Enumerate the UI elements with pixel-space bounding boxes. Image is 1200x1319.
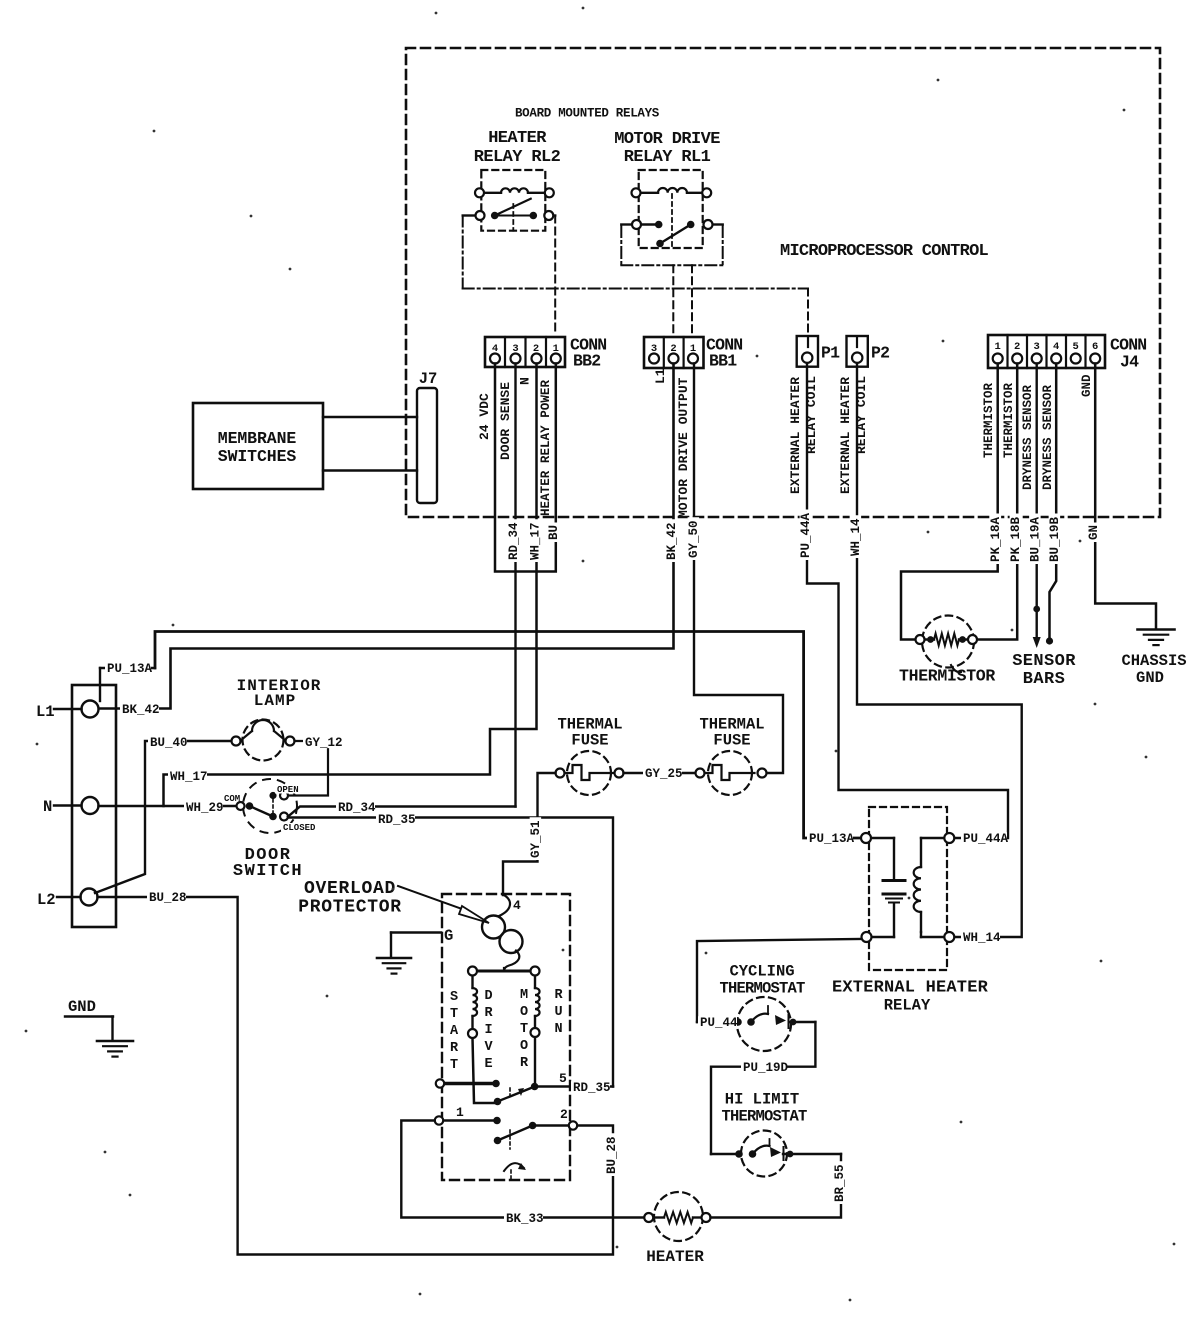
connector P2: [847, 336, 868, 367]
run winding lower wire: [534, 1037, 536, 1087]
svg-text:MOTOR DRIVE: MOTOR DRIVE: [614, 130, 720, 149]
external heater relay terminals: [861, 833, 871, 843]
power terminal block: [72, 685, 116, 927]
thermal fuse 2 dashed circle: [624, 751, 755, 795]
door switch link dashes: [272, 799, 274, 813]
wire PU_19D cycling to hi-limit: [711, 1022, 815, 1154]
svg-text:N: N: [554, 1022, 562, 1037]
dashed wire RL2 contact to CONN BB2 pin 1: [554, 216, 556, 335]
thermistor resistor element: [934, 634, 959, 646]
svg-text:MOTOR DRIVE OUTPUT: MOTOR DRIVE OUTPUT: [676, 377, 691, 518]
svg-text:5: 5: [1073, 341, 1079, 353]
svg-text:RD_35: RD_35: [573, 1081, 611, 1095]
svg-text:BU_19A: BU_19A: [1029, 516, 1043, 562]
svg-text:GND: GND: [1136, 669, 1164, 687]
wire PK_18A J4 pin1 to thermistor: [901, 364, 998, 640]
svg-text:DOOR SENSE: DOOR SENSE: [498, 382, 513, 460]
terminal N: [82, 797, 99, 814]
wire label BK_42 at L1: [120, 703, 159, 715]
svg-text:HI LIMIT: HI LIMIT: [725, 1091, 799, 1109]
svg-text:OPEN: OPEN: [277, 785, 299, 795]
svg-text:R: R: [520, 1056, 529, 1071]
sensor bar contact pin3: [1033, 606, 1040, 613]
svg-text:THERMOSTAT: THERMOSTAT: [719, 980, 805, 998]
svg-text:O: O: [520, 1039, 528, 1054]
wire pin5 to RD_35: [535, 1085, 613, 1088]
thermal fuse 2 element: [705, 765, 755, 780]
wire PU_13A from L1 to external heater relay: [99, 668, 101, 701]
motor winding bus: [473, 968, 540, 1103]
motor ground symbol: [377, 957, 411, 960]
wire label BK_42 at BB1: [666, 519, 678, 562]
wire label RD_34: [508, 519, 520, 562]
svg-text:1: 1: [995, 341, 1001, 353]
wire label PU_44A at relay: [961, 832, 1007, 844]
relay RL1 dash-dot enclosure: [620, 226, 622, 265]
overload protector squiggle top: [499, 895, 510, 917]
svg-text:GND: GND: [1080, 374, 1094, 397]
svg-text:G: G: [444, 927, 453, 945]
wire label BU_19B: [1049, 514, 1061, 565]
svg-text:E: E: [484, 1057, 492, 1072]
svg-text:J4: J4: [1120, 353, 1139, 372]
wire label PK_18A: [990, 514, 1002, 565]
relay RL1 switch blade: [660, 225, 691, 244]
membrane switches box: [193, 403, 323, 489]
svg-text:LAMP: LAMP: [254, 692, 296, 710]
wire GY_51 thermal fuse to motor pin 4: [503, 773, 556, 895]
motor switch pin 2 contact: [533, 1124, 569, 1127]
svg-text:EXTERNAL HEATER: EXTERNAL HEATER: [838, 377, 853, 494]
wire label GY_51: [530, 817, 542, 860]
dash-dot boundary from RL2 left: [462, 216, 464, 289]
cycling thermostat line PU_44: [697, 1021, 738, 1023]
svg-text:WH_14: WH_14: [963, 931, 1001, 945]
wire label WH_14 at P2: [850, 515, 862, 558]
svg-text:BB1: BB1: [709, 352, 737, 371]
svg-text:BB2: BB2: [573, 352, 600, 371]
external heater relay contact plates: [883, 879, 905, 882]
svg-text:N: N: [518, 377, 533, 385]
relay RL1 coil: [641, 192, 659, 194]
run winding: [534, 976, 536, 988]
relay RL2 contact terminals: [476, 211, 485, 220]
wire RD_34 from BB2 pin 3 to door switch: [514, 364, 516, 807]
svg-text:J7: J7: [419, 370, 438, 388]
wire membrane switches to J7 upper: [164, 364, 556, 807]
svg-text:FUSE: FUSE: [713, 732, 750, 750]
svg-text:BR_55: BR_55: [833, 1164, 847, 1202]
wire membrane switches to J7 lower: [323, 469, 417, 471]
relay RL1 armature dashed link: [671, 194, 673, 248]
svg-text:6: 6: [1092, 341, 1098, 353]
svg-text:MEMBRANE: MEMBRANE: [218, 429, 297, 448]
relay RL2 coil terminals: [475, 188, 484, 197]
wire heater to hi-limit thermostat BR_55: [711, 1154, 842, 1218]
svg-text:CYCLING: CYCLING: [729, 963, 794, 981]
cycling thermostat dashed circle: [737, 997, 791, 1051]
door switch closed contact: [269, 813, 277, 821]
svg-text:P1: P1: [821, 344, 840, 363]
wire WH_17 from BB2 pin 2: [164, 364, 537, 807]
sensor bar contact pin4: [1046, 637, 1053, 644]
motor winding bus terminals: [468, 967, 477, 976]
drive motor dashed box: [442, 894, 570, 1180]
svg-text:WH_29: WH_29: [186, 801, 224, 815]
svg-text:I: I: [484, 1023, 492, 1038]
svg-text:RD_34: RD_34: [507, 522, 521, 560]
connector J7: [417, 388, 437, 503]
svg-text:BK_42: BK_42: [665, 522, 679, 560]
svg-text:EXTERNAL HEATER: EXTERNAL HEATER: [788, 377, 803, 494]
wire stub L1: [54, 708, 82, 710]
svg-text:RELAY RL2: RELAY RL2: [474, 148, 561, 167]
door switch blade: [250, 806, 274, 817]
svg-text:4: 4: [513, 898, 521, 913]
thermistor dashed circle: [920, 616, 974, 673]
svg-text:O: O: [520, 1005, 528, 1020]
svg-text:RELAY: RELAY: [884, 997, 931, 1015]
ground GND symbol: [97, 1040, 133, 1043]
label OPEN: [275, 785, 303, 794]
svg-text:FUSE: FUSE: [571, 732, 608, 750]
centrifugal switch link: [509, 1088, 511, 1096]
wire RD_35 door switch to motor switch: [288, 818, 613, 1087]
thermal fuse 1 element: [565, 765, 615, 780]
svg-text:L1: L1: [36, 703, 55, 721]
svg-text:PU_44A: PU_44A: [799, 512, 813, 558]
svg-text:RELAY RL1: RELAY RL1: [624, 148, 711, 167]
heater dashed circle: [653, 1192, 703, 1241]
interior lamp dashed circle: [243, 720, 284, 761]
relay RL2 switch blade: [495, 199, 531, 216]
svg-text:THERMISTOR: THERMISTOR: [1002, 382, 1016, 458]
terminal L2: [81, 889, 98, 906]
door switch open contact: [269, 792, 276, 799]
external heater relay dashed box: [869, 807, 947, 970]
svg-text:3: 3: [1034, 341, 1040, 353]
wire label BU: [548, 523, 560, 543]
wire label PU_13A at L1: [105, 662, 151, 674]
terminal L1: [82, 701, 99, 718]
wire label PU_19D: [741, 1061, 787, 1073]
chassis ground symbol: [1138, 628, 1175, 631]
svg-text:GND: GND: [68, 998, 96, 1016]
svg-text:L2: L2: [37, 891, 56, 909]
relay RL2 contact wire: [463, 214, 556, 216]
wire BU_19A J4 pin3 to sensor bar: [1035, 364, 1037, 642]
start winding lower wire: [473, 1038, 498, 1103]
svg-text:COM: COM: [224, 794, 240, 804]
svg-text:DRYNESS SENSOR: DRYNESS SENSOR: [1021, 384, 1035, 490]
motor switch pin 5 fixed contact: [445, 1082, 496, 1086]
thermistor pigtail: [951, 665, 961, 672]
svg-text:BU: BU: [547, 525, 561, 540]
relay RL1 contact wire: [621, 223, 722, 225]
CONN BB2 pin terminals: [490, 354, 500, 364]
hi limit thermostat blade: [753, 1146, 770, 1154]
wire BK_33 from motor pin 1 to heater: [401, 1121, 644, 1218]
connector CONN BB2: [485, 337, 565, 367]
svg-text:2: 2: [560, 1107, 568, 1122]
svg-text:BU_19B: BU_19B: [1048, 516, 1062, 562]
svg-text:GY_25: GY_25: [645, 767, 683, 781]
svg-text:SWITCH: SWITCH: [233, 862, 303, 881]
wire label WH_14 at relay: [961, 931, 1000, 943]
connector P1: [797, 336, 818, 367]
connector CONN J4: [988, 335, 1105, 368]
svg-text:SWITCHES: SWITCHES: [218, 447, 297, 466]
overload protector squiggle bottom: [504, 951, 519, 972]
svg-text:S: S: [450, 990, 458, 1005]
heater relay RL2 dashed box: [481, 170, 545, 231]
wire label PU_13A at relay: [807, 832, 853, 844]
hi limit thermostat dashed circle: [711, 1131, 841, 1177]
svg-text:N: N: [43, 798, 52, 816]
wire PU_44A from P1 to external heater relay: [807, 364, 1008, 839]
relay RL1 coil terminals: [632, 188, 641, 197]
wire label BK_33: [504, 1212, 543, 1224]
svg-text:WH_14: WH_14: [849, 518, 863, 556]
svg-text:THERMOSTAT: THERMOSTAT: [721, 1108, 807, 1126]
thermal fuse 1 terminals: [556, 769, 565, 778]
svg-text:GY_51: GY_51: [529, 820, 543, 858]
wire label PU_44: [698, 1016, 737, 1028]
svg-text:OVERLOAD: OVERLOAD: [304, 879, 396, 899]
svg-text:HEATER: HEATER: [488, 129, 547, 148]
wire label GY_12: [303, 736, 342, 748]
svg-text:HEATER: HEATER: [646, 1248, 704, 1266]
wire cycling thermostat to external heater relay: [697, 939, 861, 1051]
svg-text:BARS: BARS: [1023, 670, 1065, 689]
connector CONN BB1: [644, 337, 704, 368]
svg-text:PROTECTOR: PROTECTOR: [298, 898, 402, 918]
wire label BU_19A: [1029, 514, 1041, 565]
overload protector thermal discs: [482, 916, 505, 939]
motor drive relay RL1 dashed box: [639, 170, 703, 248]
svg-text:D: D: [484, 989, 492, 1004]
thermistor terminals: [916, 635, 925, 644]
svg-text:GN: GN: [1087, 525, 1101, 540]
svg-text:RD_35: RD_35: [378, 813, 416, 827]
svg-text:THERMISTOR: THERMISTOR: [982, 382, 996, 458]
svg-text:BK_42: BK_42: [122, 703, 160, 717]
heater terminals: [644, 1213, 653, 1222]
svg-text:SENSOR: SENSOR: [1012, 652, 1076, 671]
svg-text:BU_28: BU_28: [605, 1136, 619, 1174]
start winding: [471, 976, 473, 988]
interior lamp filament: [240, 720, 286, 741]
wire label RD_34: [336, 801, 375, 813]
dashed wire RL1 to CONN BB1 pin 2: [672, 265, 674, 334]
svg-text:R: R: [484, 1006, 493, 1021]
svg-text:1: 1: [456, 1105, 464, 1120]
CONN J4 pin terminals: [993, 354, 1003, 364]
heater element: [664, 1212, 693, 1223]
wire label GN: [1088, 523, 1100, 543]
wire label PK_18B: [1010, 514, 1022, 565]
wire stub N: [54, 804, 82, 806]
svg-text:T: T: [450, 1007, 458, 1022]
wire BB2 pin4 to pin1 loop: [495, 364, 556, 572]
svg-text:RD_34: RD_34: [338, 801, 376, 815]
svg-text:2: 2: [1014, 341, 1020, 353]
wire RD_34 door switch to BB2: [288, 807, 516, 817]
overload protector leader arrow: [398, 886, 510, 923]
svg-text:T: T: [450, 1058, 458, 1073]
motor switch pin 1 fixed contact: [443, 1119, 497, 1122]
wire GY_12 lamp to door switch open contact: [289, 741, 328, 796]
wire label WH_17: [529, 519, 541, 562]
svg-text:WH_17: WH_17: [529, 522, 543, 560]
svg-text:CLOSED: CLOSED: [283, 823, 316, 833]
hi limit thermostat line: [711, 1153, 739, 1155]
label CLOSED: [281, 823, 319, 832]
wire label BR_55: [834, 1161, 846, 1204]
svg-text:R: R: [450, 1041, 459, 1056]
svg-text:PU_44A: PU_44A: [963, 832, 1009, 846]
svg-text:EXTERNAL HEATER: EXTERNAL HEATER: [832, 979, 989, 998]
wire BU_28 from L2 around bottom to motor pin 2: [98, 897, 614, 1255]
svg-text:U: U: [554, 1005, 562, 1020]
svg-text:PU_13A: PU_13A: [107, 662, 153, 676]
external heater relay coil: [914, 867, 921, 912]
motor ground wire G: [391, 933, 441, 958]
dashed wire RL1 to CONN BB1 pin 1: [691, 265, 693, 334]
wire BU_19B J4 pin4 to sensor bar: [1050, 364, 1057, 642]
thermal fuse 2 terminals: [696, 769, 705, 778]
svg-text:MICROPROCESSOR CONTROL: MICROPROCESSOR CONTROL: [780, 242, 988, 261]
wire label BU_28 at L2: [147, 891, 186, 903]
CONN BB1 pin terminals: [649, 354, 659, 364]
svg-text:5: 5: [559, 1071, 567, 1086]
wire WH_14 from P2 to external heater relay: [857, 364, 1022, 938]
dashed wire boundary to P1: [807, 289, 809, 335]
thermal fuse 1 dashed circle: [565, 751, 615, 795]
door switch dashed circle: [243, 779, 297, 833]
door switch common terminal: [237, 802, 245, 810]
svg-text:BK_33: BK_33: [506, 1212, 544, 1226]
svg-text:BU_40: BU_40: [150, 736, 188, 750]
motor switch blade 1: [498, 1087, 534, 1101]
wire label BU_28 vertical: [606, 1133, 618, 1176]
microprocessor control board dashed outline: [406, 48, 1160, 517]
svg-text:4: 4: [1053, 341, 1059, 353]
svg-text:PU_44: PU_44: [700, 1016, 738, 1030]
svg-text:CHASSIS: CHASSIS: [1121, 652, 1186, 670]
svg-text:L1: L1: [653, 368, 668, 384]
wire label RD_35: [376, 813, 415, 825]
svg-text:DRYNESS SENSOR: DRYNESS SENSOR: [1041, 384, 1055, 490]
svg-text:GY_50: GY_50: [687, 520, 701, 558]
wire label RD_35 at motor: [571, 1081, 610, 1093]
svg-text:THERMISTOR: THERMISTOR: [899, 667, 995, 686]
wire GY_25 between thermal fuses: [624, 772, 696, 774]
wire PK_18B J4 pin2 to thermistor: [978, 364, 1018, 640]
ground GND wire: [65, 1017, 113, 1041]
dash-dot horizontal boundary line: [463, 288, 808, 290]
svg-text:PU_13A: PU_13A: [809, 832, 855, 846]
wire stub L2: [57, 896, 81, 898]
relay RL2 coil: [484, 192, 501, 194]
svg-text:BU_28: BU_28: [149, 891, 187, 905]
svg-text:HEATER RELAY POWER: HEATER RELAY POWER: [539, 380, 553, 516]
svg-text:PK_18B: PK_18B: [1009, 516, 1023, 562]
centrifugal switch arrow: [504, 1163, 524, 1171]
svg-text:V: V: [484, 1040, 493, 1055]
svg-text:WH_17: WH_17: [170, 770, 208, 784]
svg-text:T: T: [520, 1022, 528, 1037]
wire label PU_44A at P1: [800, 510, 812, 561]
svg-text:GY_12: GY_12: [305, 736, 343, 750]
motor switch blade 2: [498, 1126, 533, 1141]
relay RL2 armature dashed link: [512, 204, 514, 231]
svg-text:PU_19D: PU_19D: [743, 1061, 789, 1075]
svg-text:P2: P2: [871, 344, 889, 363]
wire label BU_40: [148, 736, 187, 748]
svg-text:PK_18A: PK_18A: [989, 516, 1003, 562]
cycling thermostat blade: [751, 1014, 768, 1022]
relay RL1 contact terminals: [632, 220, 641, 229]
svg-text:A: A: [450, 1024, 459, 1039]
svg-text:R: R: [554, 988, 563, 1003]
wire label GY_25: [643, 767, 682, 779]
wire BK_42 BB1 pin 2 to L1: [98, 364, 674, 709]
interior lamp terminals: [232, 737, 241, 746]
external heater relay contact wiring: [871, 837, 894, 839]
wire GN J4 pin6 to chassis ground: [1095, 364, 1156, 630]
wire label WH_17 at N: [168, 770, 207, 782]
svg-text:BOARD MOUNTED RELAYS: BOARD MOUNTED RELAYS: [515, 107, 660, 121]
wire WH_29 from N to door switch common: [99, 805, 237, 807]
svg-text:24 VDC: 24 VDC: [477, 393, 492, 440]
external heater relay coil wiring: [921, 837, 944, 839]
wire GY_50 BB1 pin 1 to thermal fuse: [694, 364, 783, 774]
svg-text:M: M: [520, 988, 528, 1003]
wire label GY_50: [688, 517, 700, 560]
wire BU_40 from L2 to interior lamp: [95, 741, 232, 893]
wire label WH_29: [184, 801, 223, 813]
